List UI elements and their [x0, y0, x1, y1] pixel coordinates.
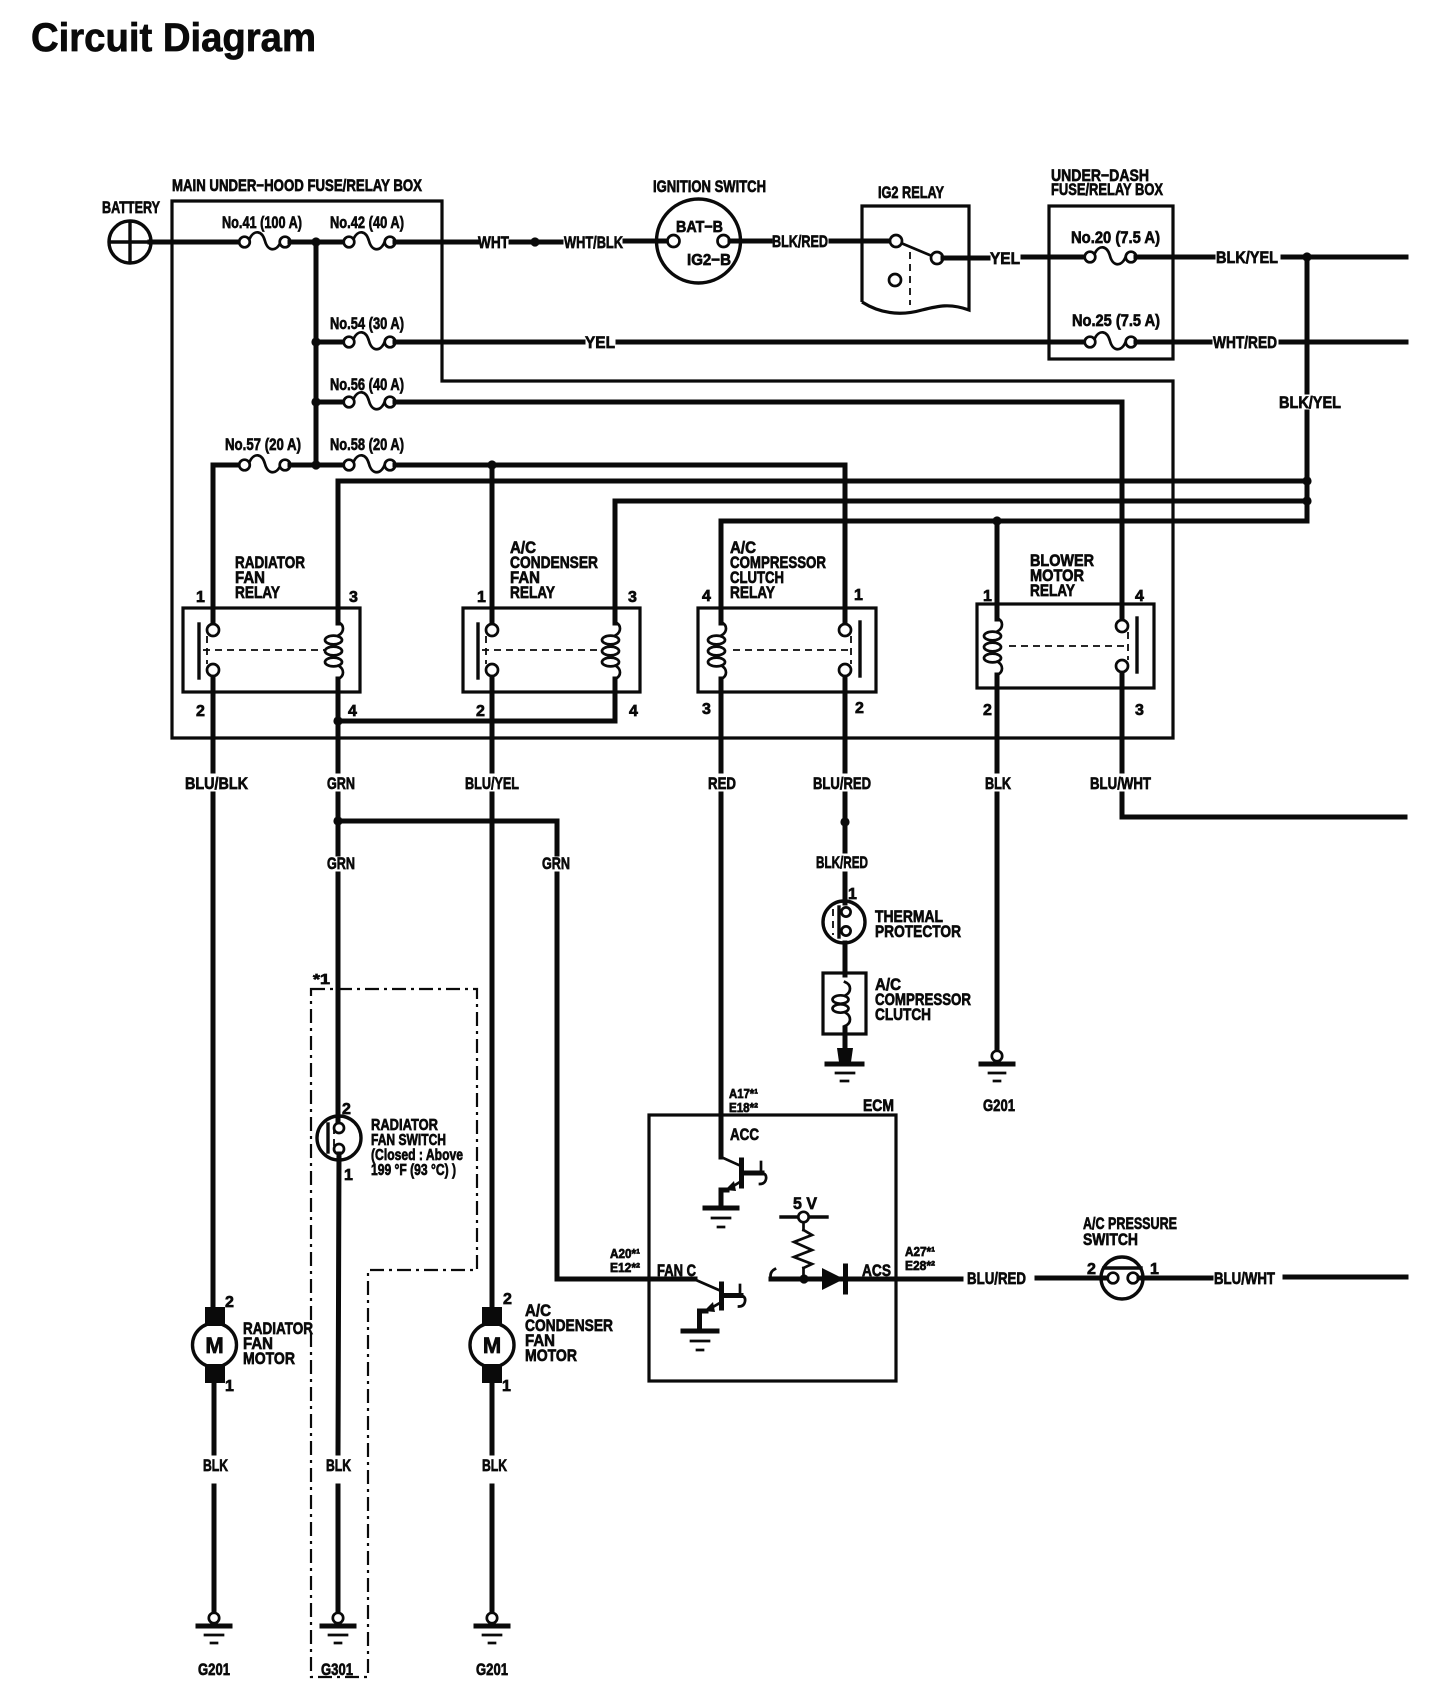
wire FAN C to ACS: [771, 1277, 961, 1282]
svg-text:IG2−B: IG2−B: [687, 252, 731, 269]
svg-text:BLK/RED: BLK/RED: [816, 853, 868, 872]
ECM box: [649, 1115, 896, 1381]
wire GRN to ECM FAN C: [557, 874, 695, 1279]
ground G201 left: [198, 1613, 230, 1643]
svg-text:2: 2: [503, 1291, 512, 1308]
svg-text:M: M: [483, 1333, 501, 1358]
svg-text:WHT/BLK: WHT/BLK: [564, 233, 624, 252]
wire BLK/YEL vertical lower: [1305, 412, 1310, 521]
wire coil feed radiator relay pin3: [338, 481, 1307, 623]
svg-text:RED: RED: [708, 774, 736, 793]
wire fuse41 to junction: [290, 240, 344, 245]
svg-text:BLU/BLK: BLU/BLK: [185, 774, 249, 793]
wire BLU/RED to pressure switch: [1037, 1276, 1108, 1281]
ground Q2: [683, 1331, 717, 1350]
IG2 relay: [862, 206, 969, 313]
bus bar vertical: [314, 242, 319, 465]
A/C condenser fan motor: [470, 1307, 514, 1383]
wire BLU/WHT to right edge: [1122, 794, 1405, 817]
svg-text:MOTOR: MOTOR: [525, 1346, 577, 1365]
svg-text:1: 1: [344, 1167, 353, 1184]
main under-hood fuse/relay box: [172, 201, 1173, 738]
battery: [109, 221, 151, 263]
resistor R1: [794, 1230, 812, 1268]
svg-text:5 V: 5 V: [793, 1194, 818, 1213]
node BLK/YEL branch2: [1302, 496, 1311, 505]
node GRN branch: [333, 816, 342, 825]
svg-text:WHT/RED: WHT/RED: [1213, 333, 1277, 352]
ignition switch: [657, 199, 741, 283]
under-dash fuse/relay box: [1049, 206, 1173, 359]
wire fuse56 to blower relay pin4: [395, 402, 1122, 604]
svg-text:PROTECTOR: PROTECTOR: [875, 922, 961, 941]
svg-text:FAN C: FAN C: [657, 1261, 696, 1280]
wire WHT/BLK to ignition switch: [625, 239, 668, 244]
svg-text:FUSE/RELAY BOX: FUSE/RELAY BOX: [1051, 180, 1164, 199]
wire fuse54 to YEL: [395, 340, 583, 345]
svg-text:E18*²: E18*²: [729, 1100, 759, 1115]
svg-text:1: 1: [477, 589, 486, 606]
fuse No.42: [344, 232, 396, 249]
wire ignition to BLK/RED: [730, 239, 770, 244]
wire BLK/RED to thermal protector: [843, 874, 848, 903]
wire resistor to diode line: [802, 1268, 805, 1279]
svg-text:YEL: YEL: [585, 333, 615, 352]
svg-text:ACS: ACS: [862, 1261, 891, 1280]
node bus to fuse56: [311, 397, 320, 406]
wire coil feed condenser relay pin3: [615, 501, 1307, 623]
svg-text:IG2 RELAY: IG2 RELAY: [878, 183, 944, 202]
radiator fan relay: [183, 608, 360, 692]
fuse No.25: [1085, 332, 1137, 349]
wire YEL to fuse No.20: [1023, 255, 1085, 260]
svg-text:RELAY: RELAY: [1030, 581, 1076, 600]
radiator fan switch: [317, 1116, 361, 1160]
blower motor relay: [977, 604, 1154, 688]
node resistor junction: [799, 1274, 808, 1283]
wire branch to blower relay pin1: [995, 521, 1000, 619]
wire condenser motor to BLK: [490, 1383, 495, 1453]
A/C compressor clutch: [823, 973, 866, 1034]
A/C condenser fan relay: [463, 608, 640, 692]
wire BLK/YEL vertical upper: [1305, 257, 1310, 392]
wire fuse58 to compressor clutch relay pin1: [395, 465, 845, 608]
svg-text:199 °F (93 °C) ): 199 °F (93 °C) ): [371, 1162, 456, 1179]
wire fan switch to BLK: [338, 1154, 339, 1453]
svg-text:2: 2: [983, 702, 992, 719]
svg-text:G201: G201: [983, 1096, 1015, 1115]
svg-text:BLK: BLK: [985, 774, 1012, 793]
svg-text:1: 1: [854, 587, 863, 604]
ground G201 right: [476, 1613, 508, 1643]
node BLK/YEL tee: [1302, 252, 1311, 261]
svg-text:BLK: BLK: [326, 1456, 352, 1475]
svg-text:4: 4: [1135, 588, 1144, 605]
wire WHT/RED to right edge: [1281, 340, 1406, 345]
wire GRN upper segment: [336, 721, 341, 771]
wire BLK to G201 right: [490, 1486, 495, 1613]
fuse No.20: [1085, 247, 1137, 264]
svg-text:A17*¹: A17*¹: [729, 1086, 758, 1101]
wire BLK/YEL to right edge: [1283, 255, 1406, 260]
svg-text:RELAY: RELAY: [510, 583, 556, 602]
wire clutch to ground: [843, 1028, 848, 1050]
ground clutch connector: [837, 1048, 853, 1062]
node bus to fuse54: [311, 337, 320, 346]
wire blower relay pin3 BLU/WHT upper: [1120, 688, 1125, 771]
wire GRN branch to right: [338, 821, 557, 854]
svg-text:E28*²: E28*²: [905, 1258, 936, 1273]
node junction No.41/No.42: [311, 237, 320, 246]
wire blower relay pin2 BLK upper: [995, 675, 1000, 771]
wire fuse25 to WHT/RED: [1136, 340, 1210, 345]
fuse No.54: [344, 332, 396, 349]
svg-text:3: 3: [1135, 702, 1144, 719]
svg-text:MAIN UNDER−HOOD FUSE/RELAY BOX: MAIN UNDER−HOOD FUSE/RELAY BOX: [172, 176, 423, 195]
svg-text:GRN: GRN: [327, 774, 355, 793]
radiator fan motor: [193, 1307, 237, 1383]
node bus bottom: [311, 460, 320, 469]
wire BLK to G301: [336, 1486, 341, 1613]
wire radiator relay pin4 to junction: [336, 679, 341, 721]
wire BLK/RED to IG2 relay: [831, 239, 891, 244]
svg-text:BLU/WHT: BLU/WHT: [1214, 1269, 1275, 1288]
wire branch to condenser relay pin1: [490, 465, 495, 608]
wire compressor relay pin2 BLU/RED upper: [843, 692, 848, 771]
svg-text:No.57 (20 A): No.57 (20 A): [225, 435, 301, 454]
wire fuse42 to WHT: [395, 240, 477, 245]
svg-text:E12*²: E12*²: [610, 1260, 641, 1275]
5V supply node: [781, 1212, 827, 1230]
svg-text:BLU/RED: BLU/RED: [813, 774, 871, 793]
svg-text:Circuit Diagram: Circuit Diagram: [31, 16, 316, 60]
svg-text:2: 2: [225, 1294, 234, 1311]
svg-text:BLK/YEL: BLK/YEL: [1216, 248, 1278, 267]
node BLK/YEL branch1: [1302, 476, 1311, 485]
fuse No.58: [344, 455, 396, 472]
ground blower BLK G201: [981, 1051, 1013, 1081]
svg-text:SWITCH: SWITCH: [1083, 1230, 1138, 1249]
svg-text:1: 1: [983, 588, 992, 605]
svg-text:MOTOR: MOTOR: [243, 1349, 295, 1368]
wire bus to fuse54: [316, 340, 344, 345]
svg-text:2: 2: [855, 700, 864, 717]
svg-text:No.42 (40 A): No.42 (40 A): [330, 213, 404, 232]
transistor Q1 ACC: [721, 1157, 766, 1206]
svg-text:M: M: [205, 1333, 223, 1358]
wire BLU/WHT to right edge (pressure): [1285, 1275, 1406, 1280]
wire condenser relay pin2 BLU/YEL upper: [490, 692, 495, 771]
ground G301: [322, 1613, 354, 1643]
wire BLU/YEL to condenser fan motor: [490, 794, 495, 1307]
wire fuse20 to BLK/YEL: [1136, 255, 1213, 260]
svg-text:3: 3: [628, 589, 637, 606]
A/C pressure switch: [1101, 1257, 1143, 1299]
node blower coil branch: [992, 516, 1001, 525]
wire fuse57 to bus: [290, 463, 344, 468]
svg-text:BLU/WHT: BLU/WHT: [1090, 774, 1151, 793]
svg-text:G201: G201: [198, 1660, 230, 1679]
svg-text:GRN: GRN: [542, 854, 570, 873]
svg-text:WHT: WHT: [478, 233, 509, 252]
svg-text:1: 1: [502, 1378, 511, 1395]
wire diode line left hook: [771, 1269, 776, 1279]
svg-text:BLK/YEL: BLK/YEL: [1279, 393, 1341, 412]
wire GRN to radiator fan switch: [336, 874, 341, 1123]
dash-dot boundary *1: [311, 989, 477, 1677]
svg-text:CLUTCH: CLUTCH: [875, 1005, 931, 1024]
transistor Q2 FAN C: [696, 1280, 745, 1329]
svg-text:4: 4: [702, 588, 711, 605]
svg-text:G301: G301: [321, 1660, 353, 1679]
A/C compressor clutch relay: [698, 608, 876, 692]
svg-text:YEL: YEL: [990, 249, 1020, 268]
svg-text:1: 1: [1150, 1261, 1159, 1278]
wire compressor relay pin3 RED upper: [719, 679, 724, 771]
svg-text:No.54 (30 A): No.54 (30 A): [330, 314, 404, 333]
fuse No.41: [239, 232, 290, 249]
fuse No.56: [344, 392, 396, 409]
svg-text:1: 1: [225, 1378, 234, 1395]
svg-text:G201: G201: [476, 1660, 508, 1679]
wire YEL to under-dash box: [618, 340, 1085, 345]
node splice WHT/WHT-BLK: [530, 237, 539, 246]
svg-text:No.20 (7.5 A): No.20 (7.5 A): [1071, 228, 1160, 247]
svg-text:2: 2: [196, 703, 205, 720]
wire RED to ECM: [719, 794, 724, 1157]
node branch condenser relay pin1: [487, 460, 496, 469]
svg-text:BLU/YEL: BLU/YEL: [465, 774, 519, 793]
wire GRN middle segment: [336, 794, 341, 854]
wire BLU/BLK to radiator fan motor: [211, 794, 216, 1307]
wire pressure switch to BLU/WHT: [1139, 1276, 1211, 1281]
wire fuse57 left leg: [213, 465, 239, 608]
svg-text:2: 2: [1087, 1261, 1096, 1278]
svg-text:3: 3: [702, 701, 711, 718]
wire splice to WHT/BLK: [540, 240, 561, 245]
wire radiator relay pin2 BLU/BLK upper: [211, 692, 216, 771]
fuse No.57: [239, 455, 290, 472]
wire BLK to ground: [995, 794, 1000, 1051]
ground Q1: [705, 1208, 737, 1227]
svg-text:ACC: ACC: [730, 1125, 759, 1144]
svg-text:*1: *1: [313, 971, 330, 988]
svg-text:4: 4: [629, 703, 638, 720]
svg-text:No.56 (40 A): No.56 (40 A): [330, 375, 404, 394]
svg-text:BATTERY: BATTERY: [102, 198, 160, 217]
wire BLU/RED to splice: [843, 794, 848, 851]
svg-text:BAT−B: BAT−B: [676, 219, 723, 236]
wire WHT to splice: [511, 240, 530, 245]
svg-text:A20*¹: A20*¹: [610, 1246, 640, 1261]
svg-text:BLK/RED: BLK/RED: [772, 232, 828, 251]
svg-text:BLU/RED: BLU/RED: [967, 1269, 1026, 1288]
node BLU/RED splice: [840, 817, 849, 826]
svg-text:IGNITION SWITCH: IGNITION SWITCH: [653, 177, 766, 196]
svg-text:No.41 (100 A): No.41 (100 A): [222, 213, 302, 232]
wire coil feed compressor relay pin4: [721, 521, 1307, 623]
svg-text:4: 4: [348, 703, 357, 720]
thermal protector: [823, 901, 865, 943]
svg-text:2: 2: [476, 703, 485, 720]
wire radiator motor to BLK: [212, 1383, 217, 1453]
svg-text:No.58 (20 A): No.58 (20 A): [330, 435, 404, 454]
ground clutch: [827, 1064, 862, 1081]
svg-text:BLK: BLK: [203, 1456, 229, 1475]
wire battery to fuse box: [150, 240, 238, 245]
svg-text:ECM: ECM: [863, 1096, 894, 1115]
wire bus to fuse56: [316, 400, 344, 405]
svg-text:A27*¹: A27*¹: [905, 1244, 935, 1259]
svg-text:RELAY: RELAY: [235, 583, 281, 602]
diode D1: [822, 1266, 846, 1292]
wire BLK to G201 left: [212, 1486, 217, 1613]
svg-text:No.25 (7.5 A): No.25 (7.5 A): [1072, 311, 1160, 330]
wire condenser relay pin4 link: [338, 679, 615, 721]
svg-text:1: 1: [196, 589, 205, 606]
node relay coil return junction: [333, 716, 342, 725]
svg-text:BLK: BLK: [482, 1456, 508, 1475]
svg-text:RELAY: RELAY: [730, 583, 776, 602]
svg-text:3: 3: [349, 589, 358, 606]
wire IG2 relay to YEL: [943, 256, 988, 261]
wire thermal protector to clutch: [843, 943, 848, 975]
svg-text:GRN: GRN: [327, 854, 355, 873]
